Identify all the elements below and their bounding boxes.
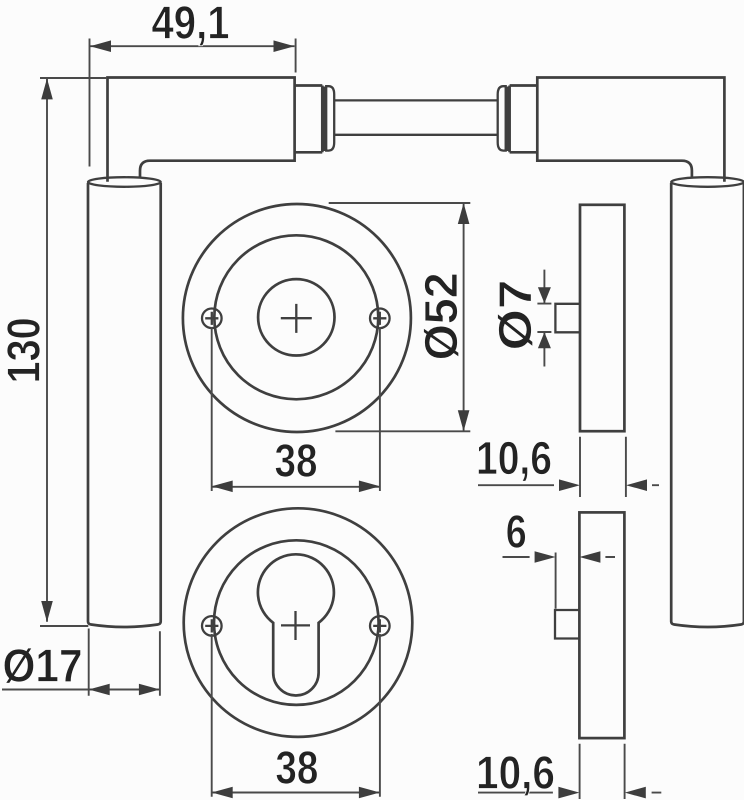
top rosette inner circle <box>258 279 334 355</box>
dimension 6 lines <box>503 556 616 558</box>
dimension O52 arrowheads <box>458 203 470 224</box>
svg-text:Ø17: Ø17 <box>3 640 83 692</box>
dimension 10,6 bottom extension lines <box>580 744 625 799</box>
dimension 10,6 top lines <box>478 484 659 486</box>
dimension 130 extension lines <box>40 78 107 626</box>
dimension O7 arrowheads <box>538 287 551 303</box>
top rosette centre cross <box>281 304 312 333</box>
dimension 6 arrowheads <box>535 551 556 563</box>
svg-text:10,6: 10,6 <box>476 746 555 798</box>
svg-text:49,1: 49,1 <box>152 0 230 49</box>
svg-text:38: 38 <box>275 742 318 794</box>
dimension 38 bottom extension lines <box>212 634 380 797</box>
bottom side-view plate <box>579 512 624 738</box>
dimension O52 line <box>463 203 465 431</box>
dimension 130 line <box>46 79 48 622</box>
bottom rosette outer circle <box>184 508 413 737</box>
dimension 49,1 arrowheads <box>90 40 111 52</box>
svg-text:38: 38 <box>275 435 318 487</box>
dimension O7 tick lines <box>537 304 551 332</box>
dimension 38 top arrowheads <box>212 481 233 493</box>
dimension 6 extension line <box>555 553 557 609</box>
dimension 38 bottom line <box>212 792 380 794</box>
top rosette right screw <box>370 309 390 329</box>
top rosette outer circle <box>183 204 411 432</box>
svg-text:Ø52: Ø52 <box>415 272 467 360</box>
top side-view plate <box>580 205 624 431</box>
top side-view screw boss <box>555 304 580 333</box>
svg-text:Ø7: Ø7 <box>489 280 541 351</box>
dimension 10,6 bottom lines <box>478 792 661 794</box>
bottom rosette euro-profile keyhole <box>258 554 334 695</box>
svg-text:10,6: 10,6 <box>476 432 552 484</box>
bottom rosette right screw <box>370 616 390 636</box>
dimension O52 extension lines <box>329 203 471 431</box>
dimension 38 top line <box>212 486 380 488</box>
right lever handle (mirrored) <box>498 78 744 628</box>
dimension O17 arrowheads <box>89 684 110 696</box>
dimension 10,6 bottom arrowheads <box>558 787 579 799</box>
dimension 10,6 top extension lines <box>580 437 626 497</box>
dimension 49,1 extension lines <box>90 39 296 167</box>
dimension 38 top extension lines <box>212 327 380 491</box>
dimension 130 arrowheads <box>41 78 53 99</box>
dimension O17 line <box>2 689 160 691</box>
top rosette middle circle <box>214 235 378 399</box>
dimension 10,6 top arrowheads <box>559 479 580 491</box>
dimension O7 lines <box>543 270 545 367</box>
bottom rosette centre cross <box>281 611 310 640</box>
bottom rosette left screw <box>202 616 222 636</box>
bottom side-view screw boss <box>555 610 579 639</box>
dimension O17 extension lines <box>89 629 160 696</box>
top rosette left screw <box>202 309 222 329</box>
svg-text:6: 6 <box>506 506 527 558</box>
dimension 38 bottom arrowheads <box>212 787 233 799</box>
bottom rosette middle circle <box>214 540 379 705</box>
left lever handle <box>88 78 334 628</box>
svg-text:130: 130 <box>0 317 50 383</box>
spindle between levers <box>334 100 498 134</box>
dimension 49,1 line <box>90 45 295 47</box>
